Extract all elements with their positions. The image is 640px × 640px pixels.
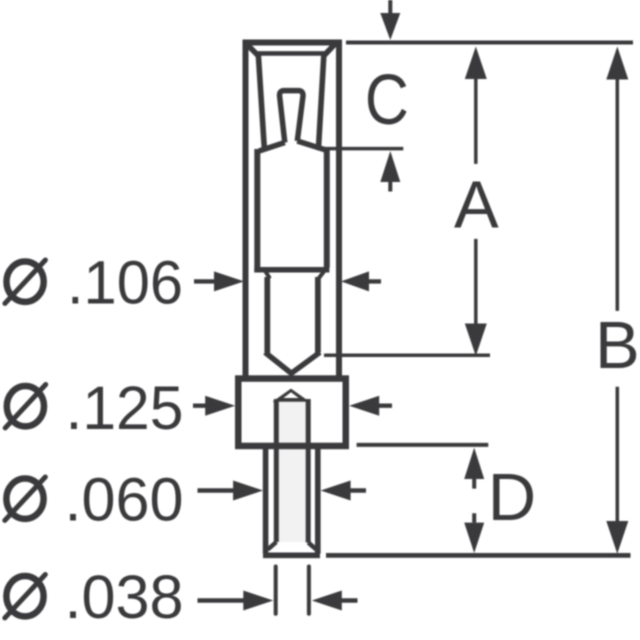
- svg-text:C: C: [365, 61, 409, 140]
- svg-text:B: B: [595, 308, 640, 383]
- svg-text:.038: .038: [65, 563, 184, 631]
- svg-text:.106: .106: [67, 249, 183, 317]
- svg-text:.060: .060: [65, 465, 184, 533]
- svg-text:D: D: [488, 460, 536, 535]
- svg-text:.125: .125: [66, 374, 184, 442]
- svg-text:A: A: [454, 167, 499, 242]
